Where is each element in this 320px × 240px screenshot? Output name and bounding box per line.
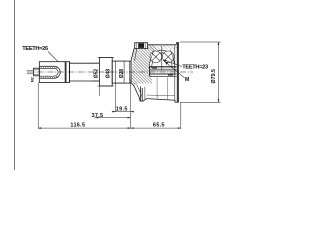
svg-text:37.5: 37.5 bbox=[92, 113, 104, 119]
svg-text:Ø48: Ø48 bbox=[106, 69, 112, 79]
svg-text:TEETH=26: TEETH=26 bbox=[22, 46, 48, 52]
svg-text:M: M bbox=[185, 77, 190, 83]
svg-text:TEETH=23: TEETH=23 bbox=[182, 64, 208, 70]
svg-text:M2: M2 bbox=[30, 77, 34, 82]
svg-text:Ø52: Ø52 bbox=[94, 69, 100, 79]
svg-text:116.5: 116.5 bbox=[70, 123, 85, 129]
svg-text:19.5: 19.5 bbox=[116, 107, 128, 113]
svg-text:Ø28: Ø28 bbox=[119, 69, 125, 79]
svg-text:Ø79.5: Ø79.5 bbox=[211, 69, 217, 83]
svg-text:65.5: 65.5 bbox=[153, 123, 165, 129]
